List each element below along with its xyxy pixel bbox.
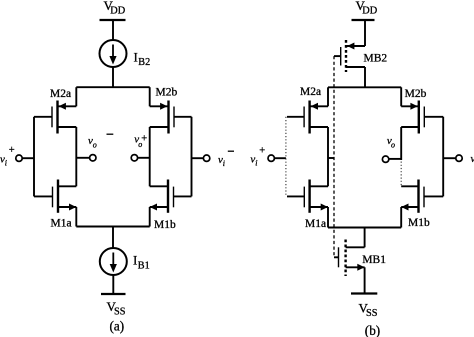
VSS supply bar (b) <box>351 292 377 294</box>
label vo (b) <box>387 135 395 149</box>
svg-text:i: i <box>255 158 257 167</box>
wire MB1 source to VSS bar (b) <box>364 267 366 293</box>
label vi+ (a) <box>0 145 15 167</box>
dashed bias line MB2 gate to MB1 gate <box>333 56 335 257</box>
input terminal vi+ (a) <box>16 155 34 161</box>
svg-text:+: + <box>141 133 147 144</box>
net VDD label (a) <box>104 0 126 17</box>
label vo- (a) <box>88 134 113 149</box>
wire MB2 source lead corner (b) <box>364 45 366 47</box>
svg-text:M2b: M2b <box>405 88 427 100</box>
transistor M1b (b) NMOS <box>401 180 443 213</box>
wire rail to MB1 drain (b) <box>364 228 366 248</box>
svg-text:M1a: M1a <box>305 218 326 230</box>
wire M2a drain to M1a drain / left output bus (b) <box>327 127 329 186</box>
svg-text:M1b: M1b <box>408 217 430 229</box>
current source IB2 <box>100 40 127 67</box>
output terminal vo- (a) <box>76 155 96 161</box>
svg-text:M2b: M2b <box>156 86 178 98</box>
svg-text:B1: B1 <box>138 261 150 272</box>
svg-text:+: + <box>9 145 15 156</box>
svg-text:MB2: MB2 <box>364 53 388 65</box>
net VSS label (a) <box>107 299 126 318</box>
transistor M1a (b) NMOS <box>287 180 328 213</box>
wire IB2 to top rail (a) <box>112 67 114 87</box>
svg-text:i: i <box>223 159 225 168</box>
svg-text:v: v <box>471 153 474 165</box>
wire bottom rail (b) common sources <box>328 227 401 229</box>
transistor M1a (a) NMOS <box>34 180 76 213</box>
svg-text:SS: SS <box>366 308 378 319</box>
VDD supply bar (b) <box>352 19 375 21</box>
wire M2a source to rail (b) <box>327 87 329 106</box>
wire IB1 to VSS bar (a) <box>112 275 114 294</box>
VSS supply bar (a) <box>101 293 126 295</box>
transistor M2b (b) PMOS <box>401 101 443 134</box>
output terminal vo (b) <box>382 156 401 162</box>
net VSS label (b) <box>359 301 378 320</box>
svg-text:DD: DD <box>362 6 377 17</box>
wire VDD bar to IB2 (a) <box>112 20 114 41</box>
net VDD label (b) <box>356 0 378 17</box>
input terminal vi- (a) <box>192 155 210 161</box>
VDD supply bar (a) <box>100 19 126 21</box>
svg-text:+: + <box>259 145 265 156</box>
wire M2b source to rail (b) <box>400 87 402 106</box>
transistor M2a (b) PMOS <box>287 101 328 134</box>
transistor MB2 PMOS <box>334 40 365 72</box>
svg-text:I: I <box>134 50 138 65</box>
label vi- (a) <box>218 151 234 168</box>
wire M1a source down (b) <box>327 207 329 228</box>
wire MB2 drain to top rail (b) <box>364 67 366 87</box>
current source IB1 <box>100 248 127 275</box>
transistor M1b (a) NMOS <box>150 180 192 213</box>
label vi+ (b) <box>250 145 265 167</box>
svg-text:M1a: M1a <box>51 217 72 229</box>
svg-text:M2a: M2a <box>300 86 321 98</box>
transistor M2a (a) PMOS <box>34 101 76 134</box>
input terminal vi+ (b) <box>268 155 286 161</box>
label IB2 <box>134 50 151 69</box>
svg-text:o: o <box>93 140 97 149</box>
wire M2b drain to M1b drain / output bus right (a) <box>149 127 151 186</box>
transistor M2b (a) PMOS <box>150 101 192 134</box>
wire top rail (b) <box>328 86 401 88</box>
wire M2b drain to vo node (b) <box>400 127 402 160</box>
wire M1a source down (a) <box>75 207 77 227</box>
svg-text:i: i <box>5 159 7 168</box>
wire M2b source to rail <box>149 87 151 106</box>
wire tick output node to dashed bias line (b) <box>328 157 334 159</box>
wire bottom rail (a) common sources <box>76 226 149 228</box>
label vi- (b) <box>471 153 474 165</box>
wire gate bus right (a) M2b-M1b gates <box>191 117 193 197</box>
wire rail to IB1 (a) <box>112 227 114 249</box>
wire top rail (a) <box>76 86 149 88</box>
label vo+ (a) <box>134 133 147 149</box>
dotted gate bus left (b) M2a-M1a gates <box>285 117 287 197</box>
svg-text:(b): (b) <box>365 323 380 337</box>
output terminal vo+ (a) <box>131 155 150 161</box>
svg-text:(a): (a) <box>110 319 125 334</box>
wire gate bus left (a) M2a-M1a gates <box>33 117 35 197</box>
transistor MB1 NMOS <box>334 240 365 277</box>
wire gate bus right (b) M2b-M1b gates <box>442 117 444 197</box>
svg-text:I: I <box>133 253 137 268</box>
input terminal vi- (b) <box>443 155 462 161</box>
wire M2a drain to M1a drain / output bus left (a) <box>75 127 77 186</box>
label IB1 <box>133 253 150 272</box>
svg-text:B2: B2 <box>138 57 150 68</box>
wire M1b source down (a) <box>149 207 151 227</box>
dotted wire vo node to M1b drain (b) <box>400 162 402 187</box>
wire M1b source down (b) <box>400 207 402 228</box>
svg-text:DD: DD <box>110 6 125 17</box>
svg-text:MB1: MB1 <box>362 254 386 266</box>
svg-text:SS: SS <box>114 307 126 318</box>
svg-text:M2a: M2a <box>50 88 71 100</box>
svg-text:o: o <box>391 141 395 150</box>
svg-text:M1b: M1b <box>154 219 176 231</box>
wire M2a source to rail <box>75 87 77 106</box>
wire VDD bar to MB2 source (b) <box>364 20 366 46</box>
